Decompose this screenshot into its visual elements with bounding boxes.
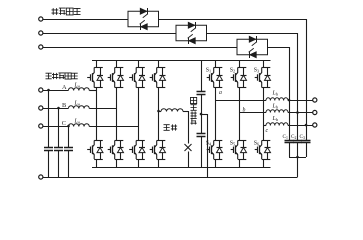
svg-text:S1: S1	[206, 68, 211, 74]
svg-text:C: C	[62, 120, 66, 127]
svg-text:Lb: Lb	[272, 116, 279, 122]
svg-text:S6: S6	[254, 141, 259, 147]
svg-text:C2: C2	[291, 134, 296, 140]
svg-text:C1: C1	[283, 134, 288, 140]
svg-text:S5: S5	[230, 141, 235, 147]
svg-text:C3: C3	[300, 134, 305, 140]
svg-text:A: A	[62, 84, 67, 91]
svg-text:S4: S4	[206, 141, 212, 147]
svg-text:Lb: Lb	[272, 104, 279, 110]
svg-text:La: La	[74, 101, 80, 107]
svg-text:b: b	[243, 108, 246, 114]
svg-text:S3: S3	[254, 68, 259, 74]
svg-text:Lb: Lb	[272, 90, 279, 96]
svg-text:c: c	[266, 128, 269, 134]
svg-text:La: La	[74, 83, 80, 89]
svg-text:a: a	[219, 90, 222, 96]
svg-text:La: La	[74, 119, 80, 125]
svg-text:B: B	[62, 102, 66, 109]
svg-text:S2: S2	[230, 68, 235, 74]
